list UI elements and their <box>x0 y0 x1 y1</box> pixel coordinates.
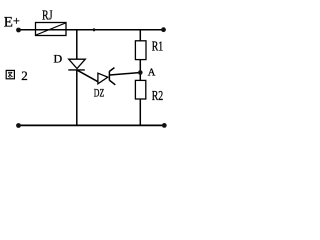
svg-text:D: D <box>54 52 63 66</box>
svg-text:RJ: RJ <box>42 8 53 23</box>
svg-text:DZ: DZ <box>94 86 105 100</box>
svg-text:2: 2 <box>21 68 28 83</box>
svg-text:A: A <box>148 68 156 79</box>
svg-text:R2: R2 <box>152 89 164 104</box>
svg-text:R1: R1 <box>152 39 164 54</box>
